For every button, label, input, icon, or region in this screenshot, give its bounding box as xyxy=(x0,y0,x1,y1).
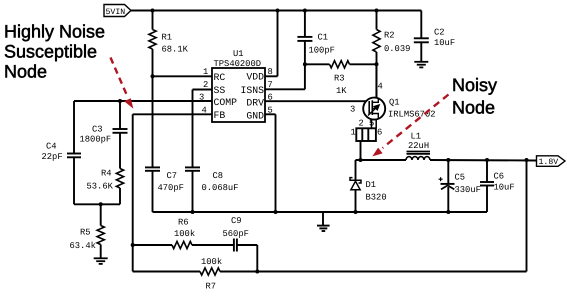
wire R6 to C9 xyxy=(192,244,234,246)
capacitor C4 xyxy=(67,153,81,155)
wire switch to D1 xyxy=(355,160,357,180)
svg-text:C4: C4 xyxy=(46,142,57,152)
svg-text:R4: R4 xyxy=(101,169,112,179)
wire comp bottom xyxy=(74,203,120,205)
svg-text:VDD: VDD xyxy=(246,72,264,83)
junction FB/R6 xyxy=(131,243,135,247)
svg-text:R7: R7 xyxy=(206,282,217,292)
net flag 5VIN xyxy=(104,5,131,17)
wire RC pin xyxy=(153,75,213,77)
wire D1 to gnd rail xyxy=(355,190,357,212)
wire COMP to C3 xyxy=(119,101,121,129)
capacitor C6 xyxy=(480,181,494,183)
svg-text:R5: R5 xyxy=(80,228,91,238)
wire DRV to gate xyxy=(265,100,366,102)
wire corner down to R7 line xyxy=(256,245,258,272)
junction comp bottom/R5 xyxy=(99,202,103,206)
svg-text:100pF: 100pF xyxy=(309,46,335,56)
wire rail to C1 xyxy=(304,11,306,38)
capacitor C2 xyxy=(414,37,429,39)
wire C3 to R4 xyxy=(119,133,121,169)
svg-text:FB: FB xyxy=(214,110,226,121)
transistor Q1 mid stub xyxy=(372,108,378,110)
svg-text:C5: C5 xyxy=(455,173,466,183)
junction C9/R7 line xyxy=(255,270,259,274)
svg-text:R6: R6 xyxy=(178,217,189,227)
wire C2 to ground xyxy=(420,42,422,61)
svg-text:7: 7 xyxy=(268,80,273,90)
junction Q1/switch node xyxy=(359,158,363,162)
svg-text:1800pF: 1800pF xyxy=(80,134,112,144)
resistor R4 xyxy=(116,169,123,189)
diode D1 xyxy=(350,178,361,183)
svg-text:R2: R2 xyxy=(384,31,395,41)
wire R7 to feedback riser xyxy=(220,271,527,273)
junction C1/R3 xyxy=(303,62,307,66)
wire C5 to gnd rail xyxy=(447,187,449,212)
svg-text:1K: 1K xyxy=(336,86,347,96)
svg-text:B320: B320 xyxy=(366,193,387,203)
svg-text:C1: C1 xyxy=(318,33,329,43)
wire R1 to RC node xyxy=(152,49,154,76)
svg-text:Highly Noise: Highly Noise xyxy=(4,22,105,42)
capacitor C1 xyxy=(297,36,312,38)
svg-text:6: 6 xyxy=(377,128,382,138)
svg-text:10uF: 10uF xyxy=(434,38,455,48)
junction R2/R3 xyxy=(375,62,379,66)
junction rail/R2 xyxy=(375,9,379,13)
wire GND pin xyxy=(265,113,276,115)
svg-text:100k: 100k xyxy=(201,257,222,267)
capacitor C8 xyxy=(185,166,200,168)
svg-text:GND: GND xyxy=(246,111,264,122)
svg-text:63.4k: 63.4k xyxy=(70,241,96,251)
svg-text:1: 1 xyxy=(203,67,208,77)
wire C7 to gnd rail xyxy=(152,171,154,212)
wire GND drop xyxy=(275,114,277,212)
wire switch node left xyxy=(356,159,407,161)
junction RC node xyxy=(151,74,155,78)
svg-text:DRV: DRV xyxy=(246,98,264,109)
wire Q1 circle to box b xyxy=(375,119,377,129)
wire C1 to ISNS xyxy=(304,41,306,89)
svg-text:C6: C6 xyxy=(494,172,505,182)
arrow to highly noise susceptible node xyxy=(111,58,128,96)
transistor Q1 channel bar xyxy=(371,100,373,115)
ground at C2 xyxy=(414,61,428,63)
svg-text:RC: RC xyxy=(214,72,226,83)
arrow to noisy node xyxy=(383,95,449,149)
op-amp U1 TPS40200D body xyxy=(212,68,265,122)
capacitor C3 xyxy=(113,128,128,130)
wire feedback riser xyxy=(526,160,528,272)
transistor Q1 source stub xyxy=(372,114,378,119)
junction rail/VDD xyxy=(276,9,280,13)
svg-text:SS: SS xyxy=(214,85,226,96)
svg-text:4: 4 xyxy=(378,82,383,92)
wire comp left edge xyxy=(73,101,75,154)
svg-text:68.1K: 68.1K xyxy=(162,45,189,55)
junction C8/gnd rail xyxy=(191,210,195,214)
wire R3 left xyxy=(305,63,330,65)
svg-text:C7: C7 xyxy=(167,171,178,181)
resistor R6 xyxy=(172,241,192,248)
transistor Q1 substrate arrow xyxy=(368,107,377,116)
transistor Q1 body xyxy=(363,98,385,120)
svg-text:1: 1 xyxy=(351,128,356,138)
wire Q1 circle to box a xyxy=(371,119,373,128)
capacitor C7 xyxy=(145,166,160,168)
svg-text:5VIN: 5VIN xyxy=(106,8,126,17)
wire FB pin xyxy=(133,113,212,115)
resistor R2 xyxy=(373,30,380,53)
svg-text:C2: C2 xyxy=(434,28,445,38)
wire rail to C2 xyxy=(420,11,422,39)
wire C8 to gnd rail xyxy=(192,171,194,212)
wire output to C5 xyxy=(447,160,449,184)
svg-text:TPS40200D: TPS40200D xyxy=(214,59,262,69)
svg-text:Susceptible: Susceptible xyxy=(4,42,97,62)
junction rail/R1 xyxy=(151,9,155,13)
svg-text:ISNS: ISNS xyxy=(240,85,264,96)
wire output line xyxy=(430,159,537,162)
wire SS to C8 xyxy=(192,90,194,168)
svg-text:U1: U1 xyxy=(233,49,244,59)
wire C9 to corner xyxy=(237,244,257,246)
svg-text:D1: D1 xyxy=(366,180,377,190)
svg-text:53.6K: 53.6K xyxy=(87,182,114,192)
transistor Q1 gate bar xyxy=(368,101,370,114)
svg-text:Q1: Q1 xyxy=(389,98,400,108)
wire FB drop xyxy=(132,114,134,271)
svg-text:22uH: 22uH xyxy=(408,141,429,151)
junction output/C6 xyxy=(485,158,489,162)
wire FB to R7 xyxy=(133,271,200,273)
wire ground rail xyxy=(153,211,488,213)
svg-text:C3: C3 xyxy=(92,125,103,135)
svg-text:3: 3 xyxy=(350,105,355,115)
svg-text:560pF: 560pF xyxy=(223,229,249,239)
svg-text:C9: C9 xyxy=(231,216,242,226)
svg-text:8: 8 xyxy=(268,67,273,77)
wire C6 to gnd rail xyxy=(486,186,488,213)
junction output/feedback xyxy=(525,158,529,162)
ground at R5 xyxy=(94,257,108,259)
wire VDD pin xyxy=(265,75,278,77)
svg-text:L1: L1 xyxy=(411,132,422,142)
junction rail/C1 xyxy=(303,9,307,13)
svg-text:1.8V: 1.8V xyxy=(539,158,559,167)
svg-text:0.039: 0.039 xyxy=(384,44,410,54)
wire FB to R6 xyxy=(133,244,172,246)
net flag 1.8V xyxy=(537,156,566,167)
inductor L1 xyxy=(406,157,430,160)
svg-text:Node: Node xyxy=(4,62,47,82)
junction output/C5 xyxy=(446,158,450,162)
ground stub mid xyxy=(322,212,324,225)
transistor Q1 drain stub xyxy=(372,99,378,103)
wire C4 to bottom xyxy=(73,157,75,204)
wire ISNS pin xyxy=(265,88,305,90)
wire R4 to bottom xyxy=(119,188,121,204)
svg-text:10uF: 10uF xyxy=(494,183,515,193)
svg-text:R3: R3 xyxy=(334,74,345,84)
wire R2 to Q1 xyxy=(376,52,378,99)
svg-text:100k: 100k xyxy=(174,229,195,239)
ground symbol mid xyxy=(317,225,330,227)
capacitor C5 plus sign xyxy=(439,178,443,180)
svg-text:COMP: COMP xyxy=(214,97,238,108)
capacitor C9 xyxy=(233,239,235,252)
wire output to C6 xyxy=(486,160,488,182)
junction COMP/C3 xyxy=(118,99,122,103)
resistor R3 xyxy=(330,61,350,68)
wire rail to R2 xyxy=(376,11,378,30)
wire COMP line xyxy=(74,100,212,102)
svg-text:0.068uF: 0.068uF xyxy=(202,183,239,193)
svg-text:Node: Node xyxy=(452,98,495,118)
svg-text:R1: R1 xyxy=(162,33,173,43)
wire SS pin xyxy=(193,89,213,91)
wire VDD riser xyxy=(277,11,279,77)
transistor Q1 pin box xyxy=(356,128,376,141)
junction C5/gnd rail xyxy=(446,210,450,214)
svg-text:22pF: 22pF xyxy=(42,152,63,162)
svg-text:Noisy: Noisy xyxy=(452,75,497,95)
wire R3 right xyxy=(350,63,377,65)
junction D1/gnd rail xyxy=(354,210,358,214)
wire rail to R1 xyxy=(152,11,154,30)
capacitor C5 xyxy=(441,183,455,185)
wire R5 to ground xyxy=(100,245,102,259)
svg-text:330uF: 330uF xyxy=(455,185,481,195)
resistor R7 xyxy=(200,268,220,275)
wire bottom to R5 xyxy=(100,204,102,225)
wire 5V rail xyxy=(131,10,421,12)
svg-text:470pF: 470pF xyxy=(158,183,184,193)
wire Q1 drain top xyxy=(375,64,377,98)
wire Q1 to switch node xyxy=(360,141,362,160)
svg-text:2: 2 xyxy=(203,80,208,90)
wire RC node to C7 xyxy=(152,76,154,166)
resistor R5 xyxy=(97,226,104,245)
svg-text:C8: C8 xyxy=(213,171,224,181)
resistor R1 xyxy=(149,30,156,50)
junction GND/gnd rail xyxy=(274,210,278,214)
